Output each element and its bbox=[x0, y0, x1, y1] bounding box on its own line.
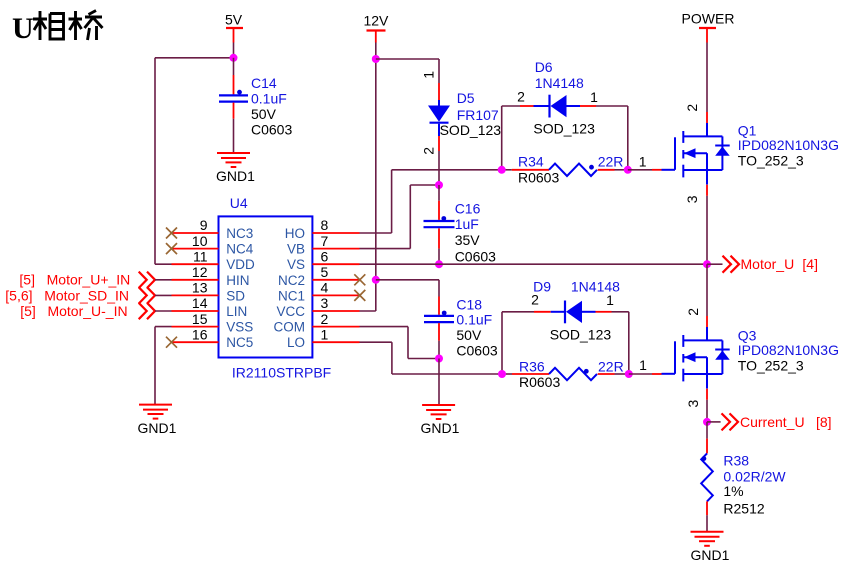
wire COM to GND bbox=[360, 327, 440, 359]
svg-text:1: 1 bbox=[639, 357, 647, 373]
no-connect X pin 9 bbox=[166, 228, 177, 239]
IC U4 IR2110STRPBF body bbox=[219, 216, 313, 357]
svg-text:1: 1 bbox=[606, 292, 614, 308]
svg-text:3: 3 bbox=[321, 295, 329, 311]
pin 13 SD bbox=[172, 280, 246, 304]
wire to pin 11 VDD bbox=[155, 263, 172, 265]
svg-text:D5: D5 bbox=[457, 90, 475, 106]
svg-text:SOD_123: SOD_123 bbox=[533, 120, 595, 136]
pin 9 NC3 bbox=[172, 217, 254, 241]
svg-text:SD: SD bbox=[226, 288, 245, 303]
svg-text:LIN: LIN bbox=[226, 304, 247, 319]
label C14 bbox=[251, 75, 292, 138]
svg-text:4: 4 bbox=[321, 280, 329, 296]
power POWER bbox=[682, 11, 735, 43]
wire LO to R36 bbox=[360, 342, 503, 374]
pin 3 Q1 bbox=[684, 195, 700, 203]
pin 11 VDD bbox=[172, 248, 256, 272]
svg-text:VSS: VSS bbox=[226, 320, 253, 335]
svg-text:GND1: GND1 bbox=[691, 547, 730, 563]
power 12V bbox=[363, 13, 389, 43]
wire VCC from rail bbox=[360, 310, 376, 312]
diode D6 bbox=[502, 95, 628, 118]
label Q3 bbox=[738, 327, 839, 373]
port Current_U bbox=[707, 413, 832, 430]
svg-text:NC2: NC2 bbox=[278, 273, 305, 288]
label D9 bbox=[533, 278, 620, 342]
svg-text:D6: D6 bbox=[535, 59, 553, 75]
svg-text:IR2110STRPBF: IR2110STRPBF bbox=[232, 365, 331, 381]
transistor Q3 bbox=[662, 327, 730, 389]
svg-text:VB: VB bbox=[287, 242, 305, 257]
pin 8 HO bbox=[285, 217, 360, 241]
wire Current_U to R38 bbox=[706, 422, 708, 454]
capacitor C16 bbox=[424, 216, 455, 227]
svg-text:R34: R34 bbox=[518, 154, 544, 170]
pin 1 Q3 bbox=[639, 357, 647, 373]
node C16/VS junction bbox=[435, 260, 443, 268]
svg-text:50V: 50V bbox=[456, 327, 482, 343]
pin 12 HIN bbox=[172, 264, 250, 288]
svg-text:HIN: HIN bbox=[226, 273, 249, 288]
svg-text:15: 15 bbox=[192, 311, 208, 327]
svg-text:6: 6 bbox=[321, 248, 329, 264]
wire 12V to C18 bbox=[376, 280, 439, 315]
resistor R34 bbox=[502, 164, 628, 176]
svg-text:C0603: C0603 bbox=[456, 342, 497, 358]
svg-text:C14: C14 bbox=[251, 75, 277, 91]
svg-text:TO_252_3: TO_252_3 bbox=[738, 357, 804, 373]
pin 1 D9 bbox=[606, 292, 614, 308]
wire R38 to GND1 bbox=[706, 515, 708, 532]
pin 3 Q3 bbox=[685, 399, 701, 407]
svg-text:VS: VS bbox=[287, 257, 305, 272]
svg-text:1: 1 bbox=[321, 326, 329, 342]
svg-text:IPD082N10N3G: IPD082N10N3G bbox=[738, 137, 839, 153]
diode D9 bbox=[502, 301, 629, 324]
pin 16 NC5 bbox=[172, 326, 254, 350]
node R34 left junction bbox=[498, 166, 506, 174]
svg-text:3: 3 bbox=[684, 195, 700, 203]
label R36 bbox=[519, 359, 624, 391]
resistor R38 bbox=[701, 453, 713, 515]
pin 7 VB bbox=[287, 233, 360, 257]
svg-text:50V: 50V bbox=[251, 106, 277, 122]
wire C14 to GND1 bbox=[233, 103, 235, 153]
label R34 bbox=[518, 154, 623, 186]
pin 2 Q1 bbox=[684, 104, 700, 112]
svg-text:2: 2 bbox=[684, 104, 700, 112]
svg-text:1N4148: 1N4148 bbox=[571, 278, 620, 294]
svg-text:Q1: Q1 bbox=[738, 122, 757, 138]
svg-text:1: 1 bbox=[590, 89, 598, 105]
wire VB junction to C16 bbox=[438, 185, 440, 220]
pin 1 D5 bbox=[420, 71, 436, 79]
wire VB to junction bbox=[360, 185, 440, 249]
svg-text:12: 12 bbox=[192, 264, 208, 280]
no-connect X pin 5 bbox=[354, 274, 365, 285]
pin 4 NC1 bbox=[278, 280, 360, 304]
svg-text:22R: 22R bbox=[598, 154, 624, 170]
wire junction to GND1 bbox=[438, 359, 440, 406]
pin 6 VS bbox=[287, 248, 360, 272]
pin 2 D6 bbox=[517, 89, 525, 105]
svg-text:2: 2 bbox=[685, 308, 701, 316]
wire 5V down to junction bbox=[233, 43, 235, 59]
svg-text:R0603: R0603 bbox=[518, 169, 559, 185]
wire D9 left leg bbox=[501, 312, 503, 374]
wire 5V junction left bbox=[155, 57, 234, 59]
svg-text:HO: HO bbox=[285, 226, 305, 241]
pin 2 D5 bbox=[420, 147, 436, 155]
node 12V/C18 junction bbox=[372, 276, 380, 284]
svg-text:R0603: R0603 bbox=[519, 374, 560, 390]
svg-text:SOD_123: SOD_123 bbox=[550, 327, 612, 343]
pin 15 VSS bbox=[172, 311, 254, 335]
port Motor_U+_IN bbox=[19, 272, 171, 288]
svg-text:[5,6] Motor_SD_IN: [5,6] Motor_SD_IN bbox=[5, 287, 129, 303]
wire VSS to GND bbox=[155, 327, 172, 405]
svg-text:GND1: GND1 bbox=[421, 420, 460, 436]
svg-text:35V: 35V bbox=[455, 232, 481, 248]
ground GND1 bottom bbox=[691, 532, 730, 563]
svg-text:IPD082N10N3G: IPD082N10N3G bbox=[738, 342, 839, 358]
wire POWER to Q1 drain bbox=[706, 43, 708, 124]
svg-text:12V: 12V bbox=[363, 13, 389, 29]
svg-text:2: 2 bbox=[321, 311, 329, 327]
wire D5 to VB junction bbox=[438, 136, 440, 185]
svg-text:1%: 1% bbox=[723, 483, 743, 499]
diode D5 bbox=[428, 100, 450, 136]
svg-text:1uF: 1uF bbox=[455, 216, 479, 232]
svg-text:1N4148: 1N4148 bbox=[535, 75, 584, 91]
port Motor_SD_IN bbox=[5, 287, 171, 303]
svg-text:[4]: [4] bbox=[802, 256, 818, 272]
svg-text:11: 11 bbox=[193, 248, 208, 264]
svg-text:2: 2 bbox=[517, 89, 525, 105]
svg-text:LO: LO bbox=[287, 335, 305, 350]
title U相桥 bbox=[12, 11, 103, 46]
svg-text:R2512: R2512 bbox=[723, 501, 764, 517]
svg-text:GND1: GND1 bbox=[216, 168, 255, 184]
svg-text:5: 5 bbox=[321, 264, 329, 280]
svg-text:10: 10 bbox=[192, 233, 208, 249]
svg-text:COM: COM bbox=[274, 320, 306, 335]
node R36 right junction bbox=[625, 370, 633, 378]
svg-text:13: 13 bbox=[192, 280, 208, 296]
svg-text:C0603: C0603 bbox=[251, 122, 292, 138]
svg-text:VDD: VDD bbox=[226, 257, 255, 272]
ground GND1 under VSS bbox=[138, 405, 177, 436]
wire D9 right leg bbox=[628, 312, 630, 374]
svg-text:NC5: NC5 bbox=[226, 335, 253, 350]
wire 12V rail bbox=[375, 43, 377, 312]
svg-text:22R: 22R bbox=[598, 359, 624, 375]
label D5 bbox=[440, 90, 502, 138]
node 12V/D5 junction bbox=[372, 55, 380, 63]
resistor R36 bbox=[502, 368, 629, 380]
svg-text:C16: C16 bbox=[455, 201, 481, 217]
pin 14 LIN bbox=[172, 295, 248, 319]
no-connect X pin 16 bbox=[166, 337, 177, 348]
svg-text:Motor_U: Motor_U bbox=[741, 256, 795, 272]
svg-text:[8]: [8] bbox=[816, 414, 832, 430]
svg-text:GND1: GND1 bbox=[138, 420, 177, 436]
svg-text:7: 7 bbox=[321, 233, 329, 249]
svg-text:16: 16 bbox=[192, 326, 208, 342]
pin 1 Q1 bbox=[639, 154, 647, 170]
wire C18 to COM junction bbox=[438, 323, 440, 358]
svg-text:[5] Motor_U-_IN: [5] Motor_U-_IN bbox=[20, 303, 127, 319]
svg-text:14: 14 bbox=[192, 295, 208, 311]
wire C16 to VS bbox=[438, 228, 440, 264]
label C18 bbox=[456, 296, 497, 358]
capacitor C14 bbox=[219, 90, 248, 102]
svg-text:C0603: C0603 bbox=[455, 248, 496, 264]
svg-text:2: 2 bbox=[420, 147, 436, 155]
pin 2 COM bbox=[274, 311, 360, 335]
wire R34 to Q1 gate bbox=[628, 169, 662, 171]
pin 10 NC4 bbox=[172, 233, 254, 257]
pin 3 VCC bbox=[276, 295, 359, 319]
no-connect X pin 4 bbox=[354, 290, 365, 301]
label U4 bbox=[230, 195, 248, 211]
port Motor_U bbox=[707, 256, 818, 273]
pin 2 D9 bbox=[531, 292, 539, 308]
wire 12V to D5 bbox=[376, 59, 439, 100]
svg-text:POWER: POWER bbox=[682, 11, 735, 27]
svg-text:U4: U4 bbox=[230, 195, 248, 211]
svg-text:Current_U: Current_U bbox=[740, 414, 805, 430]
pin 1 D6 bbox=[590, 89, 598, 105]
wire VDD rail down bbox=[154, 58, 156, 264]
label IR2110STRPBF bbox=[232, 365, 331, 381]
svg-text:NC3: NC3 bbox=[226, 226, 253, 241]
svg-text:SOD_123: SOD_123 bbox=[440, 122, 502, 138]
label D6 bbox=[533, 59, 595, 136]
svg-text:R36: R36 bbox=[519, 359, 545, 375]
svg-text:TO_252_3: TO_252_3 bbox=[738, 152, 804, 168]
node Motor_U junction bbox=[703, 260, 711, 268]
wire HO to R34 bbox=[360, 170, 502, 233]
label R38 bbox=[723, 453, 786, 517]
wire Motor_U node to Q3 drain bbox=[706, 264, 708, 327]
svg-text:C18: C18 bbox=[456, 296, 482, 312]
label C16 bbox=[455, 201, 496, 265]
pin 1 LO bbox=[287, 326, 360, 350]
svg-text:R38: R38 bbox=[723, 453, 749, 469]
capacitor C18 bbox=[424, 311, 454, 323]
svg-text:Q3: Q3 bbox=[738, 327, 757, 343]
svg-text:0.1uF: 0.1uF bbox=[251, 91, 287, 107]
node R34 right junction bbox=[624, 166, 632, 174]
wire R36 to Q3 gate bbox=[629, 373, 662, 375]
svg-text:VCC: VCC bbox=[276, 304, 305, 319]
wire D6 left leg bbox=[501, 106, 503, 170]
svg-text:[5] Motor_U+_IN: [5] Motor_U+_IN bbox=[19, 272, 130, 288]
node COM/C18 junction bbox=[435, 355, 443, 363]
svg-text:0.1uF: 0.1uF bbox=[456, 312, 492, 328]
svg-text:NC1: NC1 bbox=[278, 288, 305, 303]
svg-text:1: 1 bbox=[420, 71, 436, 79]
svg-text:U: U bbox=[12, 12, 34, 45]
wire 5V to C14 bbox=[233, 58, 235, 95]
pin 5 NC2 bbox=[278, 264, 360, 288]
svg-text:9: 9 bbox=[200, 217, 208, 233]
node R36 left junction bbox=[498, 370, 506, 378]
transistor Q1 bbox=[662, 123, 730, 185]
wire Q1 source to Motor_U node bbox=[706, 185, 708, 265]
pin 2 Q3 bbox=[685, 308, 701, 316]
svg-text:1: 1 bbox=[639, 154, 647, 170]
power 5V bbox=[225, 12, 243, 43]
wire D6 right leg bbox=[627, 106, 629, 170]
label Q1 bbox=[738, 122, 839, 168]
svg-text:NC4: NC4 bbox=[226, 242, 253, 257]
svg-text:5V: 5V bbox=[225, 12, 243, 28]
wire VS to Motor_U bbox=[360, 263, 708, 265]
wire Q3 source to Current_U node bbox=[706, 389, 708, 422]
svg-text:D9: D9 bbox=[533, 278, 551, 294]
svg-text:8: 8 bbox=[321, 217, 329, 233]
ground GND1 middle bbox=[421, 405, 460, 436]
node VB junction bbox=[435, 181, 443, 189]
svg-text:3: 3 bbox=[685, 399, 701, 407]
svg-text:FR107: FR107 bbox=[457, 107, 499, 123]
node 5V junction bbox=[230, 54, 238, 62]
no-connect X pin 10 bbox=[166, 243, 177, 254]
ground GND1 under C14 bbox=[216, 153, 255, 184]
port Motor_U-_IN bbox=[20, 303, 171, 319]
node Current_U junction bbox=[703, 418, 711, 426]
